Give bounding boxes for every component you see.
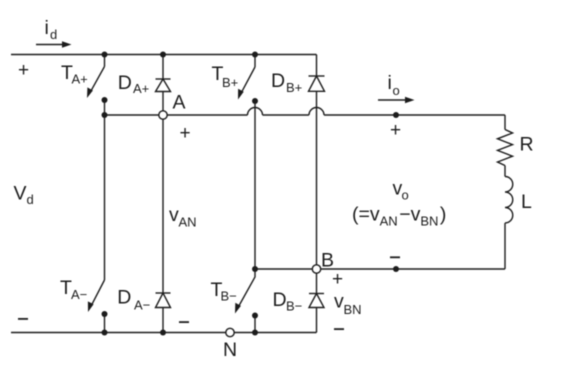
diode D_B+ : triangle xyxy=(309,76,325,91)
junction dot: bottom bus / T_B− leg xyxy=(252,330,258,336)
wire: below L to node-B line corner xyxy=(504,223,506,269)
node B open circle xyxy=(312,265,320,273)
switch T_A+ : bottom contact dot xyxy=(102,97,108,103)
svg-text:+: + xyxy=(179,123,190,144)
svg-text:D: D xyxy=(273,289,287,311)
wire: T_A+ contact to node-A line xyxy=(104,100,106,115)
diode D_B+ : wire down through hop to node B xyxy=(316,91,318,264)
svg-text:A+: A+ xyxy=(133,81,149,96)
current arrow i_d xyxy=(36,44,63,46)
diode D_A+ : triangle xyxy=(156,79,171,92)
diode D_A+ : cathode bar xyxy=(156,78,171,80)
wire: bottom DC bus (negative rail) xyxy=(11,332,317,334)
svg-text:A−: A− xyxy=(134,298,150,313)
junction dot: top bus / D_A+ leg xyxy=(160,52,166,58)
svg-text:D: D xyxy=(118,72,132,94)
svg-text:R: R xyxy=(520,134,534,156)
diode D_B+ : cathode bar xyxy=(309,75,325,77)
svg-text:D: D xyxy=(271,70,285,92)
svg-text:D: D xyxy=(117,287,131,309)
svg-text:+: + xyxy=(390,120,401,141)
svg-text:V: V xyxy=(14,182,27,204)
node N open circle on bottom bus xyxy=(226,328,234,336)
svg-text:i: i xyxy=(388,72,392,94)
diode D_A+ : leg wire from top bus xyxy=(162,55,164,80)
switch T_B+ : blade with arrowhead xyxy=(242,67,256,92)
svg-text:v: v xyxy=(169,204,179,226)
svg-text:B−: B− xyxy=(286,299,302,314)
label − (v_AN negative) xyxy=(179,321,189,323)
switch T_B+ : top stub xyxy=(254,55,256,68)
junction dot: top bus / T_B+ leg xyxy=(252,52,258,58)
switch T_A− : bottom contact dot xyxy=(102,311,108,317)
inductor L coils xyxy=(505,177,513,224)
junction dot: node-B line / T_B legs xyxy=(252,266,258,272)
svg-text:(=vAN−vBN): (=vAN−vBN) xyxy=(352,204,446,229)
switch T_B− : bottom contact dot xyxy=(252,313,258,319)
junction dot: bottom bus / D_A− leg xyxy=(160,330,166,336)
svg-text:B+: B+ xyxy=(286,80,302,95)
wire: T_A− contact to bottom bus xyxy=(104,314,106,333)
wire: right vertical from node-A line to resistor xyxy=(504,115,506,130)
svg-text:N: N xyxy=(223,339,237,361)
junction dot: bottom bus / T_A− leg xyxy=(102,330,108,336)
diode D_B− : leg wire from node B xyxy=(316,273,318,293)
wire: between R and L xyxy=(504,166,506,177)
current arrow i_o xyxy=(378,99,406,101)
svg-text:B−: B− xyxy=(221,289,237,304)
svg-text:v: v xyxy=(334,291,344,313)
wire: node-B horizontal line xyxy=(255,268,505,270)
label − (v_o negative) xyxy=(390,256,400,258)
label − (v_BN negative) xyxy=(334,328,344,330)
svg-text:B: B xyxy=(321,250,334,272)
svg-text:d: d xyxy=(50,27,57,42)
junction dot: node-A line left end xyxy=(102,112,108,118)
wire: T_B+ leg down through hop to node-B line xyxy=(254,101,256,269)
label − (Vd negative terminal) xyxy=(18,318,28,320)
svg-text:A+: A+ xyxy=(72,72,88,87)
junction dot: top bus / T_A+ leg xyxy=(102,52,108,58)
diode D_A− : cathode bar xyxy=(156,292,171,294)
wire hop: node-A line over T_B+ leg xyxy=(248,108,263,115)
svg-text:+: + xyxy=(18,60,29,81)
wire: T_B− contact to bottom bus xyxy=(254,316,256,333)
switch T_A+ : top stub xyxy=(104,55,106,67)
node A open circle xyxy=(159,111,167,119)
svg-text:B+: B+ xyxy=(222,75,238,90)
svg-text:A−: A− xyxy=(71,287,87,302)
svg-text:L: L xyxy=(521,191,532,213)
junction dot: v_o positive terminal on node-A line xyxy=(393,112,399,118)
diode D_A+ : wire to node A xyxy=(162,92,164,111)
wire: top DC bus (positive rail) xyxy=(11,54,317,56)
svg-text:o: o xyxy=(393,83,400,98)
diode D_B− : triangle xyxy=(309,294,324,308)
diode D_A− : leg wire from node A down xyxy=(162,119,164,293)
svg-text:o: o xyxy=(402,188,409,203)
svg-text:A: A xyxy=(173,91,186,113)
svg-text:d: d xyxy=(27,192,34,207)
svg-text:+: + xyxy=(332,269,343,290)
switch T_A− : blade with arrowhead xyxy=(91,280,104,306)
resistor R zigzag xyxy=(498,130,513,166)
junction dot: v_o negative terminal on node-B line xyxy=(393,266,399,272)
wire hop: node-A line over D_B+ leg xyxy=(309,108,324,115)
diode D_A− : triangle xyxy=(156,293,171,308)
diode D_B+ : leg wire from top bus corner xyxy=(316,55,318,77)
switch T_A− : leg wire from node-A line xyxy=(104,115,106,280)
svg-text:AN: AN xyxy=(179,214,197,229)
svg-text:BN: BN xyxy=(344,302,362,317)
diode D_A− : wire to bottom bus xyxy=(162,308,164,333)
diode D_B− : wire to bottom bus corner xyxy=(316,308,318,333)
svg-text:i: i xyxy=(45,17,49,39)
switch T_B− : blade with arrowhead xyxy=(238,269,255,307)
switch T_B+ : bottom contact dot xyxy=(252,98,258,104)
switch T_A+ : blade with arrowhead xyxy=(91,67,105,92)
diode D_B− : cathode bar xyxy=(309,293,324,295)
wire: node-A horizontal line with hops over T_B+ and D_B+ legs xyxy=(105,114,506,116)
